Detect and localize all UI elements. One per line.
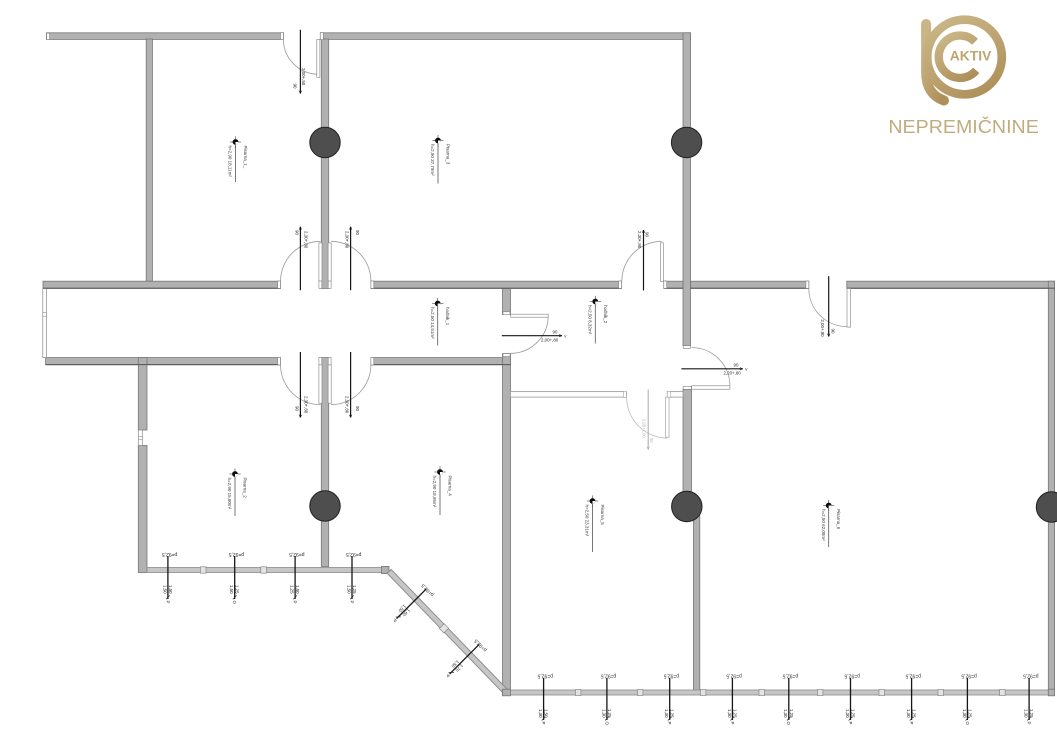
svg-text:1,30: 1,30: [727, 709, 732, 718]
svg-text:90: 90: [649, 438, 654, 443]
svg-text:h=2,50 23,31m²: h=2,50 23,31m²: [585, 505, 590, 537]
svg-text:90: 90: [294, 230, 299, 235]
svg-text:O: O: [232, 601, 237, 605]
svg-text:1,25: 1,25: [912, 709, 917, 718]
svg-text:2,00+,80: 2,00+,80: [541, 337, 559, 342]
svg-text:1,25: 1,25: [352, 585, 357, 594]
svg-text:P: P: [541, 722, 546, 725]
svg-text:p=92,5: p=92,5: [783, 673, 799, 679]
svg-text:P: P: [1027, 722, 1032, 725]
svg-text:2,00+,80: 2,00+,80: [820, 319, 825, 337]
svg-text:p=92,5: p=92,5: [1023, 673, 1039, 679]
svg-text:P: P: [293, 601, 298, 604]
svg-text:1,50: 1,50: [162, 585, 167, 594]
svg-text:1,30: 1,30: [664, 709, 669, 718]
svg-text:p=92,5: p=92,5: [961, 673, 977, 679]
svg-text:p=92,5: p=92,5: [905, 673, 921, 679]
svg-text:90: 90: [355, 406, 360, 411]
svg-text:p=92,5: p=92,5: [844, 673, 860, 679]
svg-text:O: O: [604, 722, 609, 726]
svg-text:1,50: 1,50: [346, 585, 351, 594]
svg-text:V: V: [564, 334, 567, 338]
svg-text:90: 90: [831, 329, 836, 334]
svg-text:h=2,90 18,11m²: h=2,90 18,11m²: [228, 146, 233, 178]
svg-text:1,25: 1,25: [967, 709, 972, 718]
svg-text:90: 90: [734, 362, 739, 367]
svg-text:Pisarna_2: Pisarna_2: [243, 478, 248, 499]
svg-text:hodnik_1: hodnik_1: [445, 307, 450, 326]
svg-text:2,00+1,00: 2,00+1,00: [642, 419, 647, 438]
svg-text:1,25: 1,25: [607, 709, 612, 718]
svg-text:P: P: [730, 722, 735, 725]
svg-text:1,30: 1,30: [845, 709, 850, 718]
svg-text:P: P: [909, 722, 914, 725]
svg-text:1,25: 1,25: [732, 709, 737, 718]
svg-text:1,50: 1,50: [229, 585, 234, 594]
svg-text:2,00+,50: 2,00+,50: [301, 68, 306, 86]
svg-text:2,30+,80: 2,30+,80: [345, 231, 350, 249]
svg-text:O: O: [786, 722, 791, 726]
svg-text:O: O: [965, 722, 970, 726]
svg-text:1,30: 1,30: [538, 709, 543, 718]
svg-text:90: 90: [553, 330, 558, 335]
svg-text:90: 90: [293, 84, 298, 89]
svg-text:90: 90: [355, 230, 360, 235]
svg-text:1,25: 1,25: [851, 709, 856, 718]
svg-text:1,50: 1,50: [295, 585, 300, 594]
svg-text:90: 90: [645, 232, 650, 237]
svg-text:1,25: 1,25: [1029, 709, 1034, 718]
svg-text:Pisarna_3: Pisarna_3: [446, 144, 451, 165]
svg-text:P: P: [848, 722, 853, 725]
svg-text:1,25: 1,25: [235, 585, 240, 594]
svg-text:NEPREMIČNINE: NEPREMIČNINE: [888, 116, 1038, 137]
svg-text:1,50: 1,50: [544, 709, 549, 718]
svg-text:1,50: 1,50: [168, 585, 173, 594]
svg-text:p=92,5: p=92,5: [228, 551, 244, 557]
svg-text:h=2,50 8,32m²: h=2,50 8,32m²: [588, 305, 593, 335]
svg-text:p=92,5: p=92,5: [420, 582, 435, 597]
svg-text:90: 90: [294, 406, 299, 411]
svg-text:1,30: 1,30: [1024, 709, 1029, 718]
svg-text:h=2,90 37,79m²: h=2,90 37,79m²: [430, 144, 435, 176]
svg-text:1,30: 1,30: [601, 709, 606, 718]
svg-text:1,30: 1,30: [906, 709, 911, 718]
svg-text:p=92,5: p=92,5: [601, 673, 617, 679]
svg-text:h=2,90 15,80m²: h=2,90 15,80m²: [227, 478, 232, 510]
svg-text:1,30: 1,30: [783, 709, 788, 718]
svg-text:Pisarna_5: Pisarna_5: [600, 505, 605, 526]
svg-text:P: P: [349, 601, 354, 604]
svg-text:h=2,50 62,08m²: h=2,50 62,08m²: [821, 509, 826, 541]
svg-text:1,30: 1,30: [962, 709, 967, 718]
svg-text:p=92,5: p=92,5: [289, 551, 305, 557]
svg-text:P: P: [667, 722, 672, 725]
svg-text:1,25: 1,25: [670, 709, 675, 718]
svg-text:p=92,5: p=92,5: [473, 637, 488, 652]
svg-text:Pisarna_4: Pisarna_4: [448, 476, 453, 497]
svg-text:Pisarna_6: Pisarna_6: [836, 509, 841, 530]
svg-text:2,30+,80: 2,30+,80: [304, 396, 309, 414]
svg-text:Pisarna_1_: Pisarna_1_: [243, 146, 248, 169]
svg-text:2,20+,80: 2,20+,80: [724, 370, 742, 375]
svg-text:2,30+,80: 2,30+,80: [304, 231, 309, 249]
svg-text:V: V: [745, 368, 748, 372]
svg-text:hodnik_2: hodnik_2: [603, 305, 608, 324]
svg-text:h=2,50 14,51m²: h=2,50 14,51m²: [430, 307, 435, 339]
svg-text:2,30+,80: 2,30+,80: [345, 396, 350, 414]
svg-text:1,25: 1,25: [290, 585, 295, 594]
svg-text:p=92,5: p=92,5: [346, 551, 362, 557]
svg-text:p=92,5: p=92,5: [726, 673, 742, 679]
svg-text:2,30+,80: 2,30+,80: [637, 231, 642, 249]
svg-text:AKTIV: AKTIV: [950, 48, 992, 64]
svg-text:p=92,5: p=92,5: [663, 673, 679, 679]
svg-text:P: P: [165, 601, 170, 604]
svg-text:1,25: 1,25: [789, 709, 794, 718]
svg-text:p=92,5: p=92,5: [162, 551, 178, 557]
svg-text:h=2,90 18,95m²: h=2,90 18,95m²: [432, 476, 437, 508]
svg-text:p=92,5: p=92,5: [537, 673, 553, 679]
